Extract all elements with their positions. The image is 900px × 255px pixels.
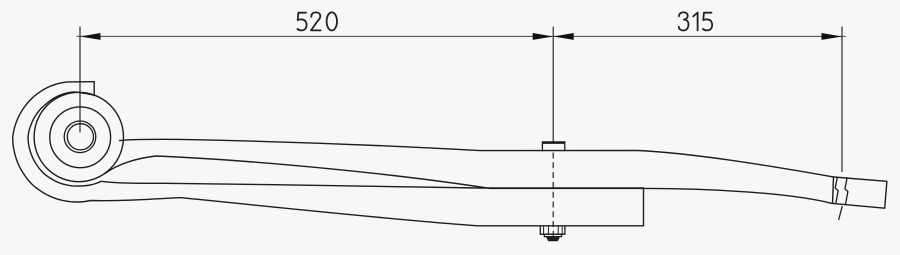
main leaf tip end block [833, 177, 887, 208]
dimension extension line at bolt center [552, 27, 554, 142]
wrapper leaf inner surface (becomes 2nd leaf top edge) [28, 92, 644, 188]
main leaf top edge [120, 139, 834, 177]
dimension line 315 [553, 35, 846, 37]
dimension line 520 [77, 35, 554, 37]
dimension text 315 [679, 12, 712, 30]
wrapper leaf outer surface (spiral around eye, becomes 2nd leaf bottom edge) [13, 82, 644, 226]
arrowhead right (315) [822, 33, 843, 40]
second leaf end cut (vertical edge) [643, 188, 645, 226]
main leaf bottom edge [105, 156, 832, 203]
center bolt head [542, 142, 564, 151]
break mark slashes on right leaf end [835, 177, 848, 221]
center bolt nut with thread hatching [540, 226, 565, 237]
main leaf rolled eye outer circle [34, 92, 123, 181]
dimension text 520 [297, 12, 337, 30]
eye hole circle [50, 107, 111, 168]
bolt protruding threaded end below nut [547, 237, 560, 241]
bushing outer circle [64, 121, 96, 153]
arrowhead left (520) [80, 33, 101, 40]
bushing bore circle [67, 124, 93, 150]
bolt center line (dashed) [552, 153, 554, 241]
dimension extension line at right pad center [841, 27, 843, 173]
arrowhead left (315) [553, 33, 574, 40]
dimension extension line at eye center [79, 27, 81, 133]
wrapper leaf end cut (vertical edge at top of eye) [93, 82, 95, 96]
arrowhead right (520) [533, 33, 554, 40]
